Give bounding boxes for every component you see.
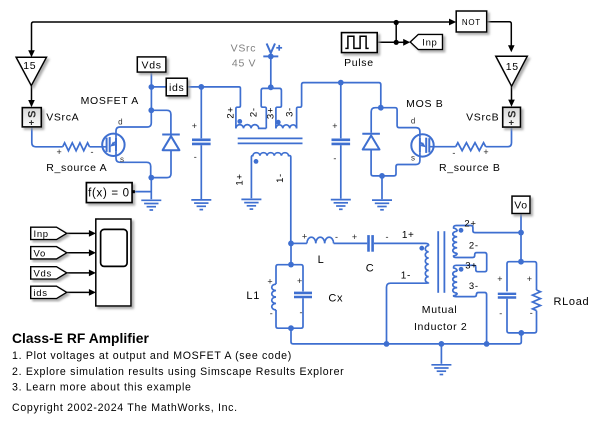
svg-text:-: - bbox=[335, 232, 339, 242]
svg-text:2-: 2- bbox=[248, 107, 259, 117]
svg-text:Inductor 2: Inductor 2 bbox=[414, 321, 468, 333]
svg-text:VSrcB: VSrcB bbox=[466, 111, 499, 123]
svg-text:f(x) = 0: f(x) = 0 bbox=[88, 187, 130, 199]
svg-text:3+: 3+ bbox=[266, 107, 277, 119]
svg-text:1+: 1+ bbox=[235, 173, 246, 185]
svg-text:-: - bbox=[333, 153, 337, 163]
svg-text:s: s bbox=[120, 155, 125, 164]
svg-text:-: - bbox=[194, 152, 198, 162]
svg-text:R_source B: R_source B bbox=[439, 162, 501, 174]
svg-text:ids: ids bbox=[34, 288, 48, 299]
svg-text:3-: 3- bbox=[469, 281, 479, 292]
svg-text:3-: 3- bbox=[285, 107, 296, 117]
svg-text:+: + bbox=[192, 121, 198, 131]
svg-text:+: + bbox=[352, 232, 358, 242]
svg-text:2+: 2+ bbox=[464, 218, 476, 229]
svg-text:MOSFET A: MOSFET A bbox=[81, 95, 139, 107]
svg-text:RLoad: RLoad bbox=[553, 296, 589, 308]
svg-text:d: d bbox=[411, 117, 416, 126]
svg-text:-: - bbox=[452, 148, 456, 158]
svg-text:R_source A: R_source A bbox=[46, 162, 107, 174]
svg-text:15: 15 bbox=[506, 61, 519, 73]
svg-text:Inp: Inp bbox=[422, 38, 437, 49]
svg-text:-: - bbox=[90, 147, 94, 157]
svg-text:+: + bbox=[332, 121, 338, 131]
svg-text:3. Learn more about this examp: 3. Learn more about this example bbox=[12, 382, 192, 394]
svg-text:Pulse: Pulse bbox=[344, 57, 374, 69]
svg-text:15: 15 bbox=[23, 60, 36, 72]
svg-text:-: - bbox=[499, 309, 503, 319]
svg-text:+: + bbox=[57, 147, 63, 157]
svg-text:+: + bbox=[267, 276, 273, 286]
svg-text:Inp: Inp bbox=[34, 229, 49, 240]
svg-text:+: + bbox=[29, 117, 35, 128]
svg-text:1+: 1+ bbox=[402, 230, 415, 241]
svg-text:L1: L1 bbox=[246, 290, 260, 302]
svg-text:+: + bbox=[497, 274, 503, 284]
svg-text:+: + bbox=[302, 232, 308, 242]
svg-text:1-: 1- bbox=[275, 173, 286, 183]
svg-text:Mutual: Mutual bbox=[422, 304, 458, 316]
svg-text:Copyright 2002-2024 The MathWo: Copyright 2002-2024 The MathWorks, Inc. bbox=[12, 402, 238, 414]
svg-text:-: - bbox=[299, 307, 303, 317]
svg-text:NOT: NOT bbox=[462, 18, 481, 27]
svg-text:ids: ids bbox=[169, 82, 184, 94]
svg-text:+: + bbox=[297, 276, 303, 286]
svg-text:1-: 1- bbox=[401, 271, 411, 282]
svg-text:2+: 2+ bbox=[226, 106, 237, 118]
svg-text:Cx: Cx bbox=[328, 292, 343, 304]
svg-text:+: + bbox=[508, 118, 514, 129]
svg-text:C: C bbox=[366, 262, 375, 274]
svg-text:Class-E RF Amplifier: Class-E RF Amplifier bbox=[12, 331, 150, 346]
svg-text:Vds: Vds bbox=[34, 268, 52, 279]
svg-text:Vds: Vds bbox=[142, 59, 162, 71]
svg-text:-: - bbox=[270, 308, 274, 318]
svg-text:1. Plot voltages at output and: 1. Plot voltages at output and MOSFET A … bbox=[12, 350, 292, 362]
svg-text:-: - bbox=[385, 232, 389, 242]
svg-text:-: - bbox=[530, 308, 534, 318]
svg-text:Vo: Vo bbox=[34, 248, 46, 259]
svg-text:+: + bbox=[527, 274, 533, 284]
svg-text:45 V: 45 V bbox=[232, 57, 256, 69]
svg-text:3+: 3+ bbox=[465, 261, 477, 272]
svg-text:VSrcA: VSrcA bbox=[46, 111, 79, 123]
svg-text:Vo: Vo bbox=[514, 200, 528, 212]
svg-text:VSrc: VSrc bbox=[231, 43, 256, 55]
svg-text:d: d bbox=[118, 118, 123, 127]
svg-text:L: L bbox=[318, 254, 325, 266]
svg-text:s: s bbox=[411, 153, 416, 162]
svg-text:2. Explore simulation results: 2. Explore simulation results using Sims… bbox=[12, 366, 344, 378]
svg-text:+: + bbox=[483, 147, 489, 157]
svg-text:2-: 2- bbox=[469, 240, 479, 251]
svg-text:MOS B: MOS B bbox=[406, 98, 443, 110]
